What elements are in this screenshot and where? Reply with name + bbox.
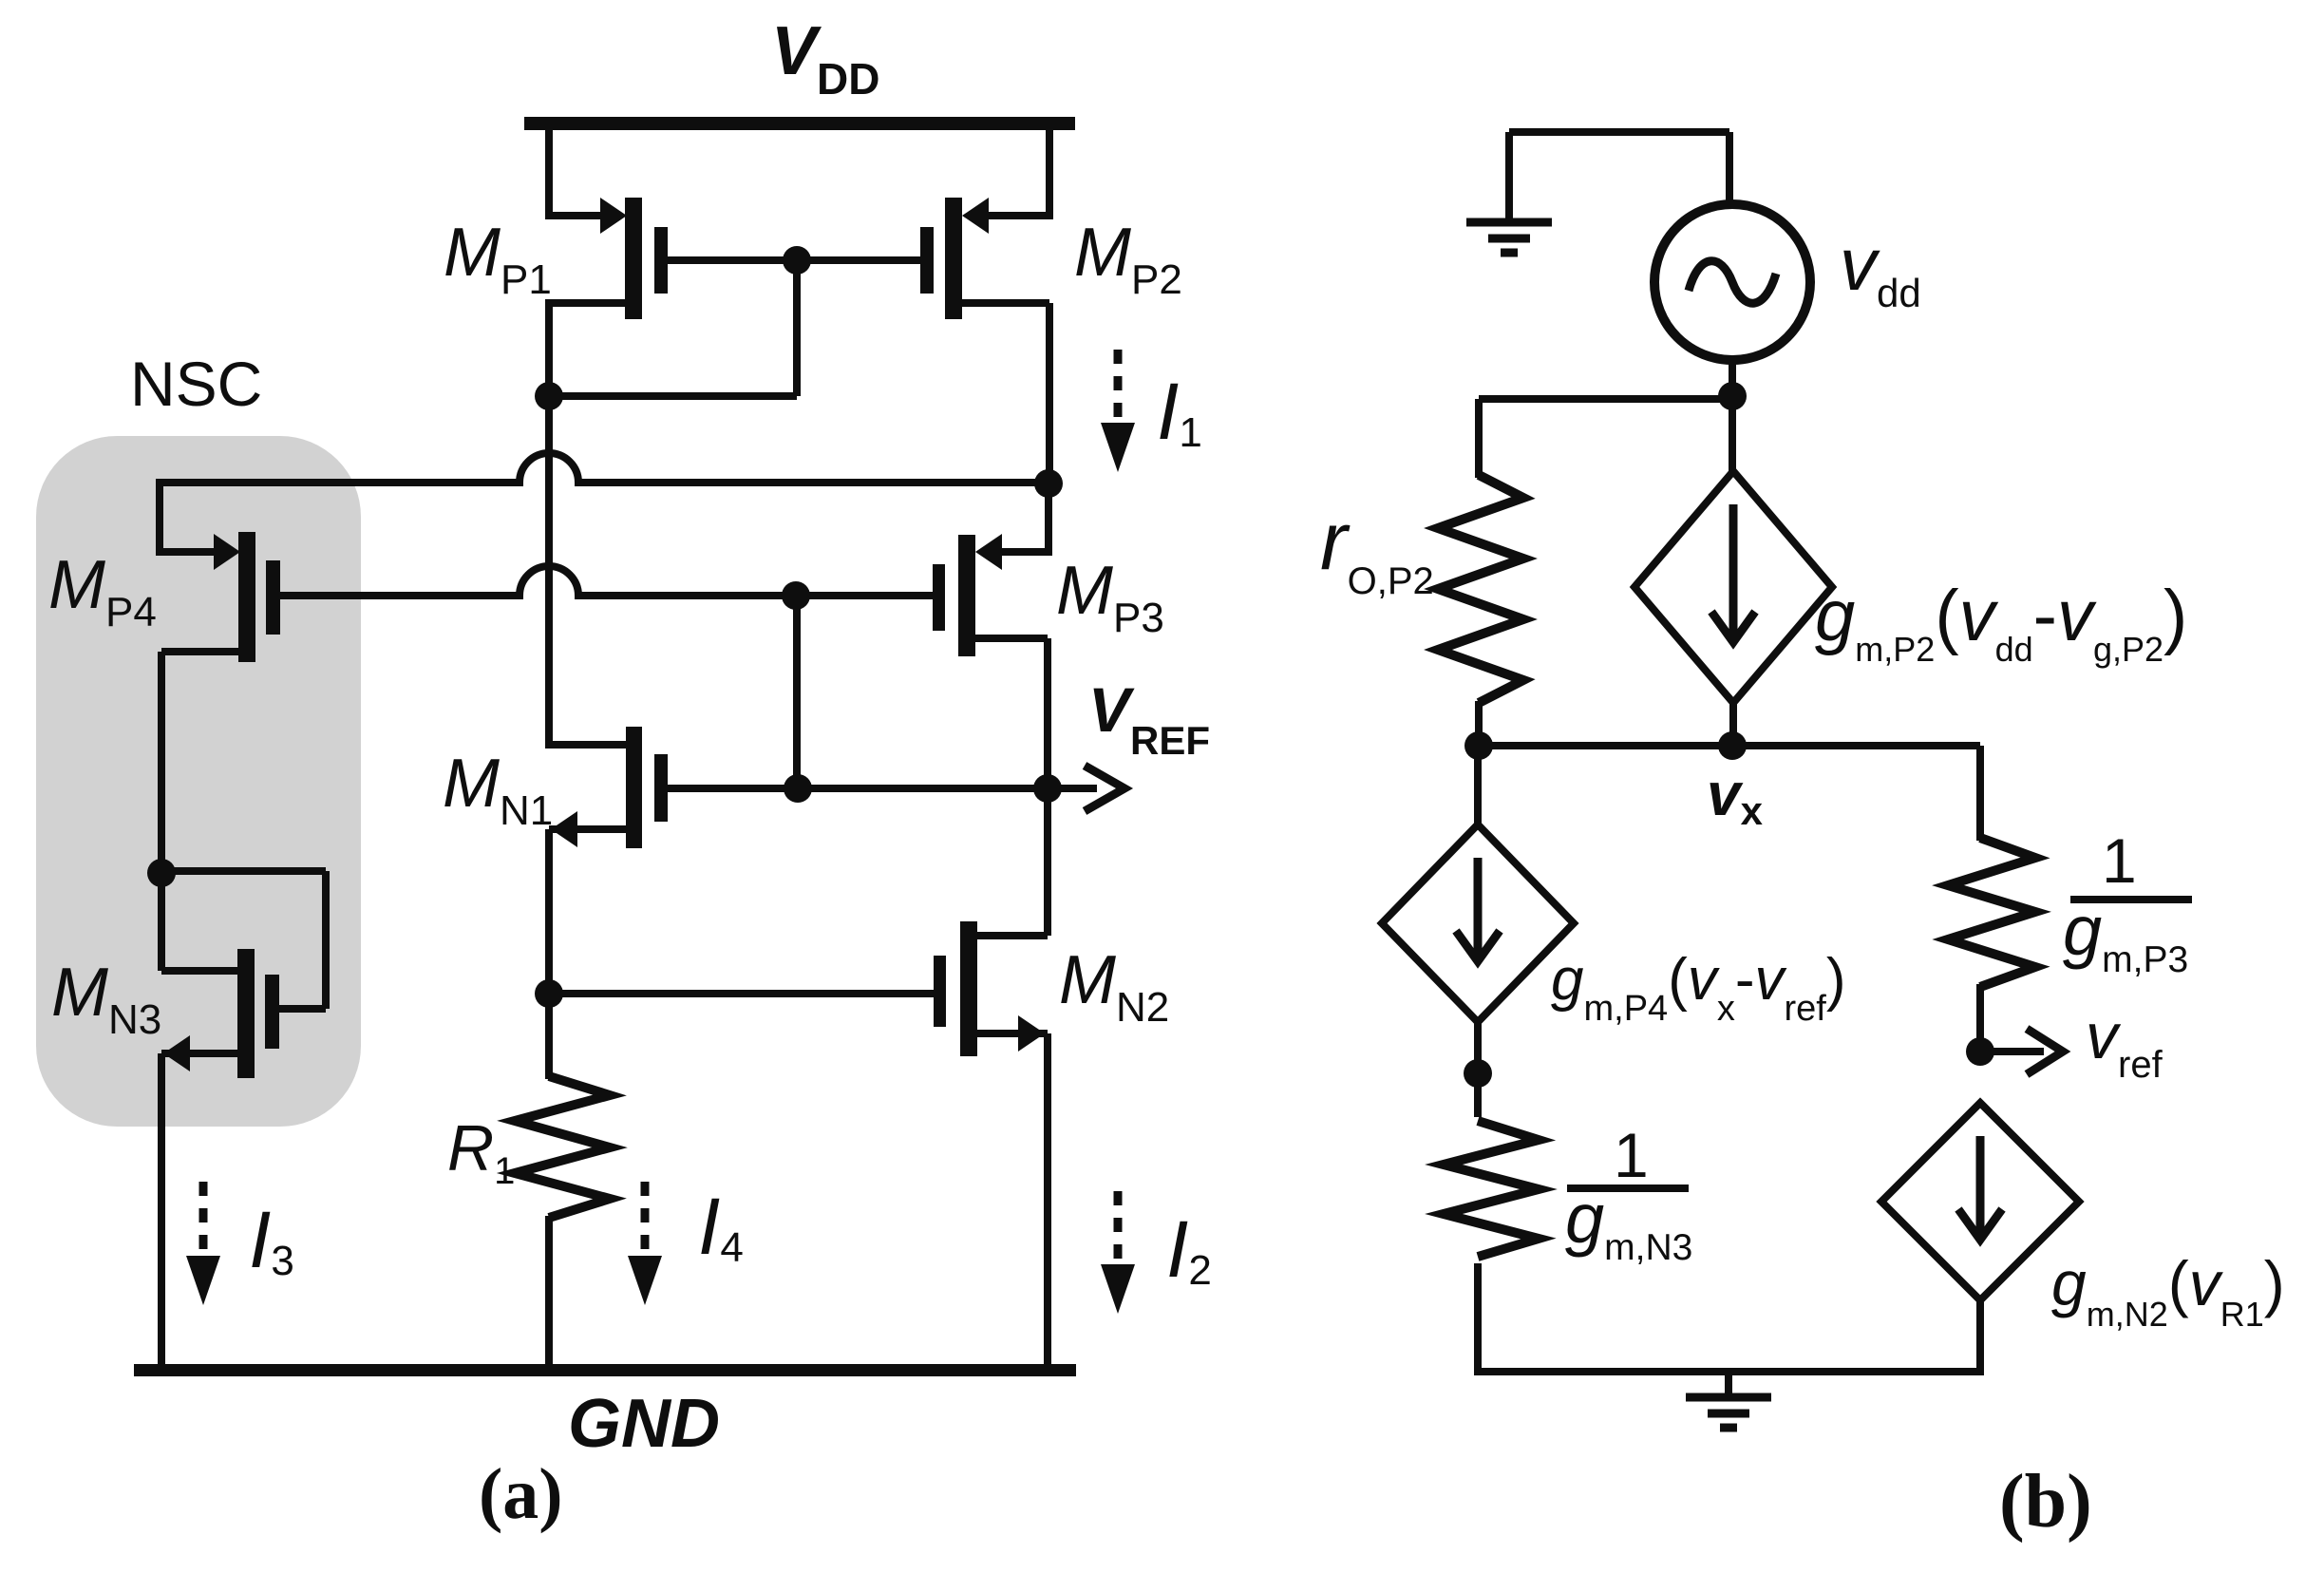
label MP4	[48, 547, 157, 635]
node vx centre	[1718, 731, 1747, 760]
label I3	[249, 1195, 294, 1284]
resistor rOP2	[1438, 475, 1523, 703]
wire MN3 source to GND	[161, 1053, 237, 1370]
current arrow I3	[186, 1182, 220, 1305]
wire MP4 drain	[161, 652, 238, 873]
label 1/gmP3	[2063, 825, 2192, 980]
wire gate feedback to node A	[549, 260, 797, 396]
transistor MN2	[934, 921, 1045, 1056]
dependent source gmN2	[1881, 1103, 2079, 1300]
label MP2	[1074, 215, 1182, 303]
wire MN2 source to GND	[977, 1033, 1048, 1370]
svg-text:gm,P3: gm,P3	[2063, 891, 2188, 980]
svg-text:GND: GND	[568, 1386, 720, 1462]
node A (MP1 drain/gate)	[535, 382, 563, 410]
label gmN2 value	[2051, 1248, 2285, 1334]
net label VDD	[771, 13, 879, 104]
wire R1 bottom to GND	[545, 1216, 553, 1370]
node mirror gate junction	[783, 246, 811, 275]
svg-text:I4: I4	[698, 1182, 744, 1271]
resistor R1	[515, 1076, 610, 1218]
wire MN3 gate tie	[161, 871, 326, 1009]
svg-text:gm,N3: gm,N3	[1565, 1179, 1692, 1268]
wire 1/gmP3 to vref node	[1976, 984, 1984, 1052]
wire bottom rail of model	[1474, 1368, 1984, 1375]
label MN2	[1059, 942, 1169, 1031]
node VREF	[1033, 774, 1062, 803]
current arrow I1	[1101, 350, 1135, 472]
wire gmN2 to bottom rail	[1976, 1300, 1984, 1375]
label vx	[1707, 760, 1764, 833]
wire R1 top	[545, 994, 553, 1079]
svg-text:(a): (a)	[479, 1454, 563, 1534]
svg-text:1: 1	[2102, 825, 2137, 896]
transistor MN3	[163, 949, 279, 1078]
VREF output arrow	[1048, 766, 1124, 811]
node vx left	[1464, 731, 1493, 760]
label I1	[1157, 367, 1202, 456]
svg-text:vref: vref	[2086, 1000, 2163, 1086]
resistor 1/gmN3	[1444, 1121, 1539, 1257]
wire VREF line (MN1 gate)	[668, 785, 1048, 792]
label R1	[447, 1112, 515, 1192]
svg-text:I2: I2	[1166, 1204, 1212, 1294]
current arrow I4	[628, 1182, 662, 1305]
label gmP2 value	[1815, 576, 2187, 669]
svg-text:MP3: MP3	[1056, 553, 1164, 641]
wire MP1 gate to mirror node	[668, 256, 797, 264]
svg-text:R1: R1	[447, 1112, 515, 1192]
node gate tie on VREF line	[784, 774, 812, 803]
transistor MP2	[920, 198, 989, 319]
wire vx to gmP4	[1474, 746, 1482, 826]
wire MP4 source to node I1 (hop over centre wire)	[160, 453, 1049, 483]
svg-text:gm,P4(vx-vref): gm,P4(vx-vref)	[1551, 947, 1846, 1029]
ground (top left of small-signal model)	[1466, 132, 1729, 253]
wire gmP4 bottom	[1474, 1021, 1482, 1117]
svg-text:(b): (b)	[1999, 1460, 2092, 1544]
wire MP1 source from VDD	[545, 123, 602, 219]
label (a)	[479, 1454, 563, 1534]
label 1/gmN3	[1565, 1120, 1692, 1268]
label MN3	[51, 955, 161, 1043]
ground rail GND	[134, 1364, 1076, 1376]
node MP3/MP4 gate junction	[782, 581, 810, 610]
resistor 1/gmP3	[1948, 838, 2035, 987]
wire node vx	[1479, 746, 1980, 841]
label VREF	[1088, 674, 1210, 763]
svg-text:rO,P2: rO,P2	[1320, 496, 1434, 602]
wire vdd node to gmP2 source	[1729, 396, 1736, 475]
svg-text:I1: I1	[1157, 367, 1202, 456]
wire MN2 drain to VREF node	[977, 788, 1048, 936]
svg-text:MN1: MN1	[443, 746, 553, 834]
label gmP4 value	[1551, 947, 1846, 1029]
node MP4 drain / MN3 junction	[147, 859, 176, 887]
label I4	[698, 1182, 744, 1271]
label MP1	[444, 215, 552, 303]
wire MN3 drain	[161, 873, 237, 971]
dependent source gmP2	[1634, 471, 1832, 703]
label MP3	[1056, 553, 1164, 641]
transistor MN1	[551, 727, 668, 848]
transistor MP1	[600, 198, 668, 319]
ground (bottom of small-signal model)	[1686, 1372, 1771, 1428]
source vdd (sine source)	[1654, 204, 1810, 360]
wire MP3 drain to VREF node	[975, 638, 1048, 788]
node gmP4 to 1/gmN3	[1464, 1059, 1492, 1088]
svg-text:vdd: vdd	[1840, 222, 1921, 315]
svg-text:NSC: NSC	[130, 349, 262, 419]
svg-text:VDD: VDD	[771, 13, 879, 104]
wire to rOP2 branch	[1479, 399, 1732, 478]
label NSC	[130, 349, 262, 419]
svg-text:I3: I3	[249, 1195, 294, 1284]
dependent source gmP4	[1382, 824, 1574, 1022]
svg-text:1: 1	[1614, 1120, 1649, 1190]
wire MP4 gate to MP3 gate (hop over centre wire)	[280, 566, 796, 596]
wire MP4 source stub	[156, 479, 215, 552]
wire MN1 source down	[549, 829, 626, 994]
wire MP2 drain to node I1	[962, 303, 1049, 483]
wire MP2 gate	[797, 256, 920, 264]
wire MN2 gate	[549, 990, 934, 997]
NSC shaded region	[36, 436, 361, 1127]
wire vdd to node	[1729, 360, 1736, 399]
vref output arrow	[1980, 1029, 2063, 1074]
current arrow I2	[1101, 1191, 1135, 1314]
label GND	[568, 1386, 720, 1462]
wire MP1 drain	[549, 299, 625, 396]
label (b)	[1999, 1460, 2092, 1544]
wire MP2 source from VDD	[989, 123, 1053, 219]
transistor MP4	[214, 532, 280, 662]
svg-text:gm,P2(vdd-vg,P2): gm,P2(vdd-vg,P2)	[1815, 576, 2187, 669]
wire centre column (node A to MN1 drain)	[545, 396, 553, 745]
svg-text:VREF: VREF	[1088, 674, 1210, 763]
svg-text:MP1: MP1	[444, 215, 552, 303]
transistor MP3	[933, 534, 1002, 656]
node below vdd	[1718, 382, 1747, 410]
wire 1/gmN3 to bottom rail	[1474, 1263, 1482, 1375]
label vref	[2086, 1000, 2163, 1086]
wire rOP2 bottom to vx	[1475, 701, 1483, 746]
power rail VDD	[524, 117, 1075, 130]
node I1 (MP2 drain)	[1034, 469, 1063, 498]
wire MN1 drain	[545, 741, 626, 745]
label MN1	[443, 746, 553, 834]
wire MP3 source from I1	[1002, 483, 1052, 552]
wire gmP2 bottom to vx	[1729, 703, 1737, 749]
node MN1 source / R1 / MN2 gate	[535, 979, 563, 1008]
label vdd	[1840, 222, 1921, 315]
label rOP2	[1320, 496, 1434, 602]
svg-text:MN2: MN2	[1059, 942, 1169, 1031]
wire MP3 gate	[796, 592, 933, 599]
label I2	[1166, 1204, 1212, 1294]
svg-text:vx: vx	[1707, 760, 1764, 833]
svg-text:gm,N2(vR1): gm,N2(vR1)	[2051, 1248, 2285, 1334]
svg-text:MP2: MP2	[1074, 215, 1182, 303]
wire gate tie vertical (MP3/MP4 gates to VREF line)	[793, 596, 801, 788]
node vref	[1966, 1037, 1994, 1066]
